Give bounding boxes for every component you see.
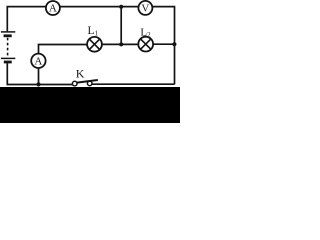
svg-text:A: A (49, 3, 57, 15)
switch K right terminal (87, 81, 92, 86)
switch K blade (77, 80, 98, 83)
node B (119, 5, 123, 9)
wire: battery bottom down and right along bottom to switch left terminal (7, 63, 72, 84)
node E (36, 82, 40, 86)
wire: switch right terminal to bottom-right corner (92, 83, 175, 85)
wire: node C to lamp L2 (121, 43, 138, 45)
lamp L2 (138, 37, 153, 52)
lamp L1 (87, 37, 102, 52)
wire: top, ammeter A1 to node B (60, 6, 121, 8)
battery cell 1 short thick plate (4, 34, 12, 37)
ammeter U3 A (branch) (31, 54, 45, 68)
svg-text:V: V (141, 2, 149, 14)
wire: ammeter A2 bottom down to node E (38, 68, 40, 84)
wire: vertical from node B down to node C (120, 7, 122, 45)
battery cell 2 long plate (1, 57, 15, 59)
wire: ammeter A2 top up to corner then right to lamp L1 (39, 45, 88, 54)
wire: battery top plate up and right along top to ammeter A1 (7, 7, 45, 32)
svg-text:K: K (76, 66, 85, 80)
battery cell 2 short thick plate (4, 61, 12, 64)
ammeter U1 A (top) (46, 1, 60, 15)
wire: voltmeter V right, down right side to bottom-right corner (153, 7, 175, 85)
wire: lamp L1 right to node C (102, 43, 121, 45)
wire: lamp L2 right to node D on right wire (153, 43, 175, 45)
node D (172, 42, 176, 46)
black bottom bar (0, 87, 180, 123)
voltmeter U2 V (top) (138, 1, 152, 15)
battery cell 1 long plate (1, 31, 15, 33)
node C (119, 42, 123, 46)
svg-text:A: A (34, 56, 42, 68)
wire: top, node B to voltmeter V (121, 6, 138, 8)
battery dashed connector between cells (7, 38, 9, 58)
switch K left terminal (72, 81, 77, 86)
